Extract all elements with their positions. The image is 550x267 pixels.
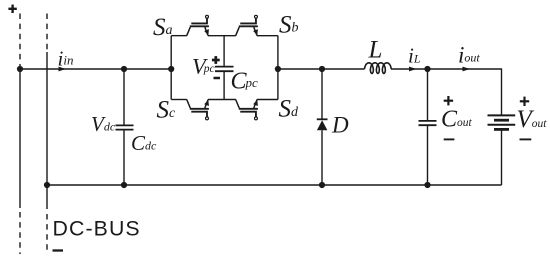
capacitor C_pc <box>215 67 234 72</box>
svg-text:DC-BUS: DC-BUS <box>53 216 141 240</box>
node: bridge left junction <box>168 66 174 72</box>
svg-text:Vpc: Vpc <box>192 53 215 78</box>
wire: top rail right segment <box>391 68 502 70</box>
svg-text:Sd: Sd <box>279 96 300 123</box>
polarity + (C_pc) <box>212 56 220 64</box>
node: diode junction <box>319 66 325 72</box>
wire: bridge bottom-right stub <box>257 99 278 101</box>
wire: rail 2 dashed bottom <box>46 214 48 252</box>
svg-text:Vdc: Vdc <box>91 112 116 136</box>
battery V_out <box>488 115 516 129</box>
polarity - (V_out) <box>520 138 532 140</box>
wire: top rail left segment <box>20 68 171 70</box>
polarity - (C_pc) <box>214 77 221 80</box>
transistor switch S_a <box>187 15 209 35</box>
node: bridge right junction <box>275 66 281 72</box>
wire: rail 2 solid <box>46 52 48 209</box>
transistor switch S_d <box>236 100 258 120</box>
diode D <box>317 69 328 185</box>
wire: bridge top-left stub <box>171 35 187 37</box>
node: rail 2 bottom junction <box>44 182 50 188</box>
wire: right vertical top <box>501 69 503 115</box>
wire: bridge bottom-left stub <box>171 99 187 101</box>
+ terminal (DC bus top) <box>8 5 16 13</box>
svg-text:L: L <box>368 37 383 64</box>
svg-text:Vout: Vout <box>517 106 548 133</box>
svg-text:iout: iout <box>458 43 480 68</box>
node: diode bottom junction <box>319 182 325 188</box>
svg-text:iin: iin <box>58 47 74 71</box>
node: input node <box>17 66 23 72</box>
polarity - (C_out) <box>444 138 455 140</box>
node: C_out bottom junction <box>424 182 430 188</box>
transistor switch S_c <box>187 100 209 120</box>
svg-text:Sa: Sa <box>153 14 173 41</box>
current arrow i_out <box>463 67 471 72</box>
polarity + (C_out) <box>444 96 453 105</box>
wire: DC bus rail 1 dashed top <box>19 14 21 67</box>
wire: bridge left vertical <box>170 36 172 100</box>
current arrow i_L <box>409 67 417 72</box>
wire: center column bottom <box>223 71 225 99</box>
transistor switch S_b <box>236 15 258 35</box>
wire: top rail to inductor <box>278 68 365 70</box>
wire: bridge top-right stub <box>257 35 278 37</box>
wire: bridge right vertical <box>277 36 279 100</box>
wire: right vertical bottom <box>501 130 503 185</box>
wire: DC bus rail 2 dashed top <box>46 14 48 53</box>
capacitor C_out <box>419 69 437 185</box>
wire: rail 1 solid <box>19 69 21 208</box>
wire: bridge top middle segment <box>208 35 236 37</box>
svg-text:iL: iL <box>408 44 421 68</box>
wire: center column top <box>223 36 225 67</box>
current arrow i_in <box>59 67 67 72</box>
svg-text:Cpc: Cpc <box>231 68 259 94</box>
node: output node <box>424 66 430 72</box>
inductor L <box>365 63 392 74</box>
wire: bottom rail <box>47 184 502 186</box>
- terminal (DC bus bottom) <box>53 249 64 251</box>
capacitor C_dc <box>116 69 134 185</box>
wire: rail 1 dashed bottom <box>19 212 21 254</box>
node: C_dc bottom junction <box>121 182 127 188</box>
svg-text:Cout: Cout <box>441 107 473 133</box>
svg-text:Sb: Sb <box>279 11 299 38</box>
node: C_dc top junction <box>121 66 127 72</box>
svg-text:Sc: Sc <box>157 97 177 124</box>
polarity + (V_out) <box>520 97 529 106</box>
svg-text:Cdc: Cdc <box>131 131 157 155</box>
wire: bridge bottom middle segment <box>208 99 236 101</box>
svg-text:D: D <box>331 113 349 138</box>
